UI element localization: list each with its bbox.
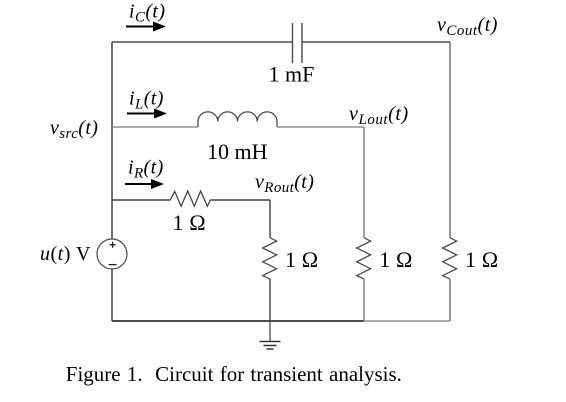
wire: below source xyxy=(111,269,113,321)
wire: vRout vertical xyxy=(269,200,271,238)
wire: top horizontal right of capacitor xyxy=(302,41,450,43)
svg-text:iC(t): iC(t) xyxy=(129,1,165,26)
voltage source minus sign xyxy=(109,264,117,266)
resistor R3 vertical 1 ohm (left) xyxy=(263,238,277,279)
svg-text:iL(t): iL(t) xyxy=(129,88,164,113)
wire: bottom horizontal right part xyxy=(364,320,450,322)
svg-text:vsrc(t): vsrc(t) xyxy=(50,117,98,142)
svg-text:vCout(t): vCout(t) xyxy=(437,14,498,39)
arrow: iL xyxy=(127,113,156,115)
wire: resistor branch left xyxy=(112,199,170,201)
ground symbol xyxy=(260,342,281,350)
inductor L 10 mH xyxy=(198,112,277,127)
arrow: iR xyxy=(125,183,153,185)
wire: inductor branch left xyxy=(112,126,198,128)
arrow: iC xyxy=(126,26,155,28)
svg-text:10 mH: 10 mH xyxy=(207,139,268,164)
svg-text:1 Ω: 1 Ω xyxy=(465,247,498,272)
wire: below right resistor xyxy=(449,279,451,321)
svg-text:vRout(t): vRout(t) xyxy=(255,171,314,196)
resistor R2 vertical 1 ohm (middle) xyxy=(357,238,371,279)
svg-text:vLout(t): vLout(t) xyxy=(349,103,409,128)
svg-text:u(t) V: u(t) V xyxy=(40,243,91,265)
wire: below left vertical resistor xyxy=(269,279,271,321)
resistor R4 vertical 1 ohm (right) xyxy=(443,238,457,279)
voltage source plus sign xyxy=(110,242,116,248)
wire: bottom horizontal xyxy=(112,320,364,322)
svg-text:1 mF: 1 mF xyxy=(269,62,315,87)
svg-text:1 Ω: 1 Ω xyxy=(173,210,206,235)
wire: top horizontal left of capacitor xyxy=(112,41,293,43)
resistor R1 horizontal 1 ohm xyxy=(170,191,210,206)
wire: below middle resistor xyxy=(363,279,365,321)
svg-text:1 Ω: 1 Ω xyxy=(379,247,412,272)
voltage source u(t) xyxy=(97,239,127,269)
wire: left vertical (source branch) xyxy=(111,42,113,239)
capacitor C 1 mF plates xyxy=(293,23,303,63)
wire: right vertical (capacitor branch) xyxy=(449,42,451,238)
svg-text:iR(t): iR(t) xyxy=(128,157,164,182)
wire: inductor branch right xyxy=(277,126,364,128)
ground stub xyxy=(269,321,271,341)
svg-text:Figure 1. Circuit for transie: Figure 1. Circuit for transient analysis… xyxy=(66,362,402,386)
wire: vLout vertical xyxy=(363,127,365,238)
svg-text:1 Ω: 1 Ω xyxy=(285,247,318,272)
wire: resistor branch right xyxy=(211,199,271,201)
